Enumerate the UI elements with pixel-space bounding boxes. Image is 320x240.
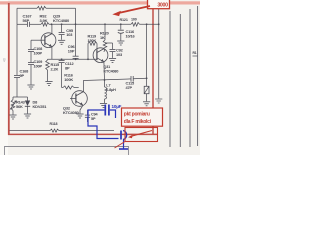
wire: Q32 emitter down bbox=[80, 105, 83, 113]
capacitor C108 bbox=[28, 48, 34, 50]
red callout box top-right bbox=[148, 0, 170, 9]
node wire y=97 bbox=[13, 96, 28, 98]
capacitor C109 bbox=[28, 61, 34, 63]
resistor R116 horizontal bbox=[62, 87, 63, 89]
ground under C109 bbox=[27, 84, 34, 86]
transistor Q31 bbox=[93, 48, 108, 63]
bus wire x=170 bbox=[169, 11, 171, 147]
bus wire x=197.5 bbox=[197, 6, 199, 146]
junction dots on rail B bbox=[51, 23, 53, 25]
wire: Q31 emitter down bbox=[103, 62, 106, 80]
diode D8 bbox=[27, 97, 29, 101]
svg-text:pkt pomiaru: pkt pomiaru bbox=[124, 112, 150, 118]
resistor R115 bbox=[47, 58, 49, 61]
wire: Q29 emitter down bbox=[51, 47, 53, 60]
ground under R143 bbox=[9, 114, 16, 116]
C92 chain bbox=[105, 42, 113, 44]
node line y=59.3 bbox=[48, 58, 97, 60]
wire: rail A right drop bbox=[75, 8, 77, 24]
svg-text:R119150K: R119150K bbox=[88, 34, 97, 43]
svg-text:40: 40 bbox=[3, 58, 7, 62]
svg-text:100: 100 bbox=[131, 18, 137, 22]
bus wire x=180 bbox=[179, 14, 181, 147]
C116 electrolytic from rail bbox=[120, 24, 122, 29]
output line y=80 bbox=[84, 79, 131, 81]
blue cap to ground bbox=[120, 131, 122, 140]
wire: Q29 base lead bbox=[31, 39, 45, 41]
red diagonal tail bbox=[115, 142, 126, 149]
resistor R120 bbox=[104, 24, 106, 40]
variable resistor R143 bbox=[12, 97, 14, 100]
paper background bbox=[0, 0, 200, 155]
ground under bus x=158.7 bbox=[155, 98, 162, 100]
svg-text:C108100P: C108100P bbox=[34, 46, 44, 55]
inductor L7 bbox=[104, 80, 106, 87]
svg-text:R121: R121 bbox=[120, 18, 128, 22]
capacitor C95 bbox=[59, 31, 65, 33]
blue capacitor 10uF plates bbox=[104, 105, 106, 116]
Q32 collector wire bbox=[83, 80, 85, 92]
red highlight box around blue cap bbox=[125, 128, 158, 142]
resistor R119 feedback bbox=[87, 44, 89, 60]
red arrow to blue cap bbox=[131, 131, 152, 137]
capacitor C96 vertical from rail bbox=[75, 24, 77, 56]
bus wire x=158.7 bbox=[158, 8, 160, 99]
ground under R115 bbox=[45, 81, 52, 83]
capacitor C94 bbox=[87, 110, 89, 115]
capacitor C112 bbox=[59, 59, 65, 61]
page frame: left red border bbox=[8, 3, 10, 135]
blue wire left of cap bbox=[88, 110, 119, 139]
bottom rail y=130.6 bbox=[10, 130, 51, 132]
red arrow top bbox=[118, 6, 151, 13]
tick on right edge bbox=[193, 55, 198, 57]
svg-text:C109100P: C109100P bbox=[34, 59, 44, 68]
ground under Q32 emitter bbox=[76, 113, 83, 115]
feed wire x=146.6 bbox=[146, 24, 148, 86]
left column C-- 9P bbox=[16, 24, 18, 75]
blue wire right of cap bbox=[110, 110, 116, 118]
C108/C109 chain on base bbox=[30, 40, 32, 49]
rail A (top feedback wire) bbox=[17, 7, 37, 9]
red note box bottom-right bbox=[122, 108, 163, 126]
rail B (main supply rail) bbox=[17, 23, 27, 25]
ground under D8 bbox=[24, 113, 31, 115]
connector component on x=146.6 bbox=[144, 86, 149, 93]
resistor R76 on rail A bbox=[37, 6, 46, 10]
capacitor C167 inline bbox=[26, 22, 28, 27]
page frame: pink top band bbox=[0, 1, 200, 4]
svg-text:R116100K: R116100K bbox=[64, 73, 73, 82]
lower block outline bbox=[5, 147, 129, 156]
resistor R92 inline bbox=[41, 23, 49, 27]
svg-text:R1: R1 bbox=[193, 51, 197, 55]
ground under x=146.6 bbox=[143, 101, 150, 103]
page frame: bottom red border bbox=[8, 133, 157, 135]
resistor R121 inline bbox=[131, 23, 140, 27]
ground under C92 bbox=[109, 57, 116, 59]
wire: Q32 base lead bbox=[70, 98, 76, 100]
svg-text:3000: 3000 bbox=[157, 3, 168, 9]
ground under C116 bbox=[117, 40, 124, 42]
capacitor C166 bbox=[14, 74, 20, 76]
transistor Q29 bbox=[41, 33, 56, 48]
ground bar under L7 bbox=[100, 103, 107, 105]
capacitor C115 inline bbox=[130, 76, 132, 82]
capacitor C92 bbox=[110, 48, 116, 50]
bus wire x=190 bbox=[189, 9, 191, 147]
wire: Q29 collector to rail B bbox=[51, 24, 53, 33]
wire: rail A left drop bbox=[16, 8, 18, 24]
C112 chain bbox=[61, 59, 63, 60]
svg-text:10µF: 10µF bbox=[112, 104, 122, 109]
page frame: middle red divider bbox=[152, 8, 154, 135]
transistor Q32 bbox=[72, 91, 88, 107]
resistor R118 inline bbox=[50, 129, 59, 132]
svg-text:C11610/16: C11610/16 bbox=[126, 29, 136, 38]
svg-text:R118: R118 bbox=[50, 122, 58, 126]
svg-text:dla F mikolci: dla F mikolci bbox=[124, 119, 152, 125]
C95 chain bbox=[61, 24, 63, 32]
ground under C95 bbox=[58, 39, 65, 41]
